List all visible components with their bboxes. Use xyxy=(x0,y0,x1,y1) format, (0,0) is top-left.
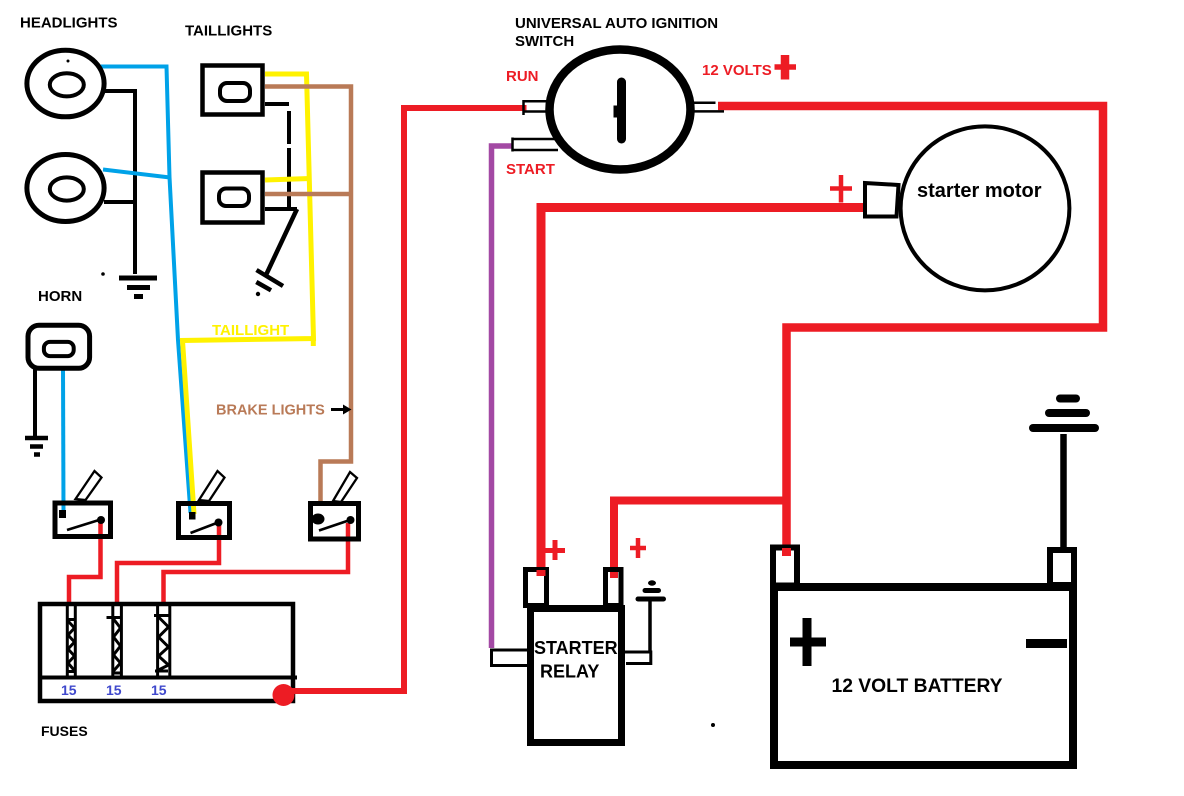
svg-text:HEADLIGHTS: HEADLIGHTS xyxy=(20,15,118,32)
svg-text:BRAKE LIGHTS: BRAKE LIGHTS xyxy=(216,403,325,419)
svg-text:12 VOLTS: 12 VOLTS xyxy=(702,62,772,79)
svg-text:RELAY: RELAY xyxy=(540,662,599,682)
svg-text:FUSES: FUSES xyxy=(41,723,88,739)
svg-text:starter motor: starter motor xyxy=(917,180,1042,202)
svg-text:STARTER: STARTER xyxy=(534,638,618,658)
svg-text:TAILLIGHT: TAILLIGHT xyxy=(212,322,289,339)
svg-text:UNIVERSAL AUTO IGNITION: UNIVERSAL AUTO IGNITION xyxy=(515,15,718,32)
svg-text:15: 15 xyxy=(106,682,122,698)
svg-text:15: 15 xyxy=(151,682,167,698)
svg-text:SWITCH: SWITCH xyxy=(515,33,574,50)
svg-text:RUN: RUN xyxy=(506,68,539,85)
svg-text:START: START xyxy=(506,161,555,178)
svg-text:12 VOLT BATTERY: 12 VOLT BATTERY xyxy=(832,676,1003,697)
svg-text:15: 15 xyxy=(61,682,77,698)
svg-text:TAILLIGHTS: TAILLIGHTS xyxy=(185,23,272,40)
svg-text:HORN: HORN xyxy=(38,288,82,305)
